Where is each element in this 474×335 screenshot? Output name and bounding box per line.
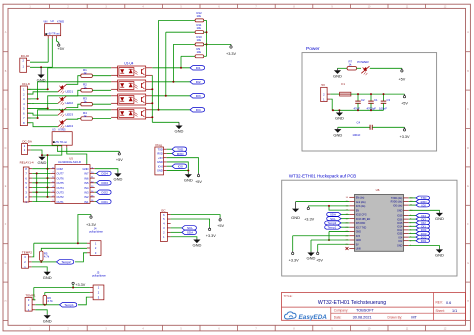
svg-text:C: C (5, 108, 7, 111)
wire (167, 165, 172, 167)
wire (292, 236, 294, 251)
wire (27, 102, 58, 104)
wire (47, 39, 49, 63)
junction (47, 196, 49, 198)
junction (180, 67, 182, 69)
svg-text:IN4: IN4 (84, 186, 89, 190)
voltage regulator module U3 (52, 128, 72, 148)
wire (409, 201, 416, 203)
connector 5V (321, 83, 331, 101)
resistor R3 1k (81, 97, 93, 106)
junction (36, 172, 38, 174)
svg-text:C4: C4 (357, 120, 361, 124)
svg-text:+5V TR out: +5V TR out (47, 33, 59, 36)
wire (51, 39, 53, 68)
svg-text:DI4: DI4 (196, 108, 201, 112)
svg-text:+5V: +5V (195, 180, 202, 184)
+3.3V port (U6 bottom) (289, 251, 299, 263)
svg-text:1k: 1k (84, 86, 88, 90)
wire (27, 92, 58, 94)
junction (151, 102, 153, 104)
wire (27, 82, 111, 99)
svg-text:GND: GND (157, 169, 163, 173)
net flag SCL (U6) (327, 217, 341, 221)
svg-text:IO39: IO39 (397, 215, 403, 218)
net flag TXD (U6) (416, 196, 430, 200)
svg-text:+3.3V: +3.3V (75, 283, 85, 287)
svg-text:U2: U2 (51, 19, 55, 23)
wire (171, 237, 197, 239)
junction (357, 109, 359, 111)
svg-text:GND: GND (307, 256, 316, 261)
svg-text:DI1-8: DI1-8 (22, 82, 30, 86)
junction (151, 88, 153, 90)
svg-text:+5V: +5V (116, 158, 123, 162)
wire (171, 231, 182, 233)
net flag Temp2 (U6) (325, 221, 341, 225)
wire (45, 293, 90, 296)
svg-text:COM: COM (57, 167, 64, 171)
junction (72, 287, 74, 289)
wire (409, 233, 416, 235)
wire (167, 152, 172, 154)
svg-text:GND: GND (333, 132, 342, 137)
ground (power caps) (335, 110, 344, 120)
wire (32, 168, 50, 170)
wire (32, 187, 50, 189)
svg-text:+3.3V: +3.3V (289, 259, 299, 263)
wire (32, 196, 50, 198)
junction (370, 109, 372, 111)
LED LED2 (58, 96, 73, 105)
svg-text:DO3: DO3 (102, 181, 109, 185)
net flag DO2 (U6) (416, 235, 430, 239)
junction (37, 98, 39, 100)
svg-text:IN3: IN3 (84, 191, 89, 195)
net flag RXD (U6) (416, 200, 430, 204)
wire (152, 95, 190, 97)
svg-text:GND: GND (192, 243, 201, 248)
svg-text:DI3: DI3 (196, 94, 201, 98)
svg-text:REV:: REV: (436, 301, 443, 305)
resistor R9 10k (195, 47, 204, 58)
svg-text:POWER: POWER (357, 60, 369, 64)
svg-text:1k: 1k (84, 71, 88, 75)
svg-text:IN6: IN6 (84, 176, 89, 180)
optocoupler U2 (111, 80, 152, 91)
connector TEMP1 (25, 294, 36, 313)
+3.3V port (I2C) (206, 227, 216, 238)
junction (36, 191, 38, 193)
svg-text:EN: EN (356, 209, 360, 212)
wire (32, 182, 50, 184)
net flag RXD (Prog) (172, 151, 187, 156)
wire (317, 244, 319, 251)
+5V port (U2 output) (57, 43, 64, 52)
wire (32, 172, 50, 174)
net flag DI1 (190, 66, 205, 71)
capacitor C3 100nF (379, 94, 391, 110)
svg-text:GND: GND (83, 167, 89, 171)
svg-text:Date:: Date: (334, 315, 342, 319)
svg-text:DO2: DO2 (102, 191, 109, 195)
net flag DI2 (190, 80, 205, 85)
svg-text:IO33 485_EN: IO33 485_EN (356, 218, 371, 221)
wire (165, 32, 167, 96)
svg-text:+3.3V: +3.3V (399, 135, 409, 139)
connector TEMP2 (22, 251, 33, 270)
svg-text:IO-0: IO-0 (158, 164, 164, 168)
ground (C4) (333, 127, 342, 137)
svg-text:OUT2: OUT2 (57, 195, 65, 199)
connector J5 pullup/down (90, 271, 107, 300)
capacitor C4 100nF (338, 120, 405, 137)
svg-text:K7805: K7805 (57, 21, 65, 24)
wire (32, 191, 50, 193)
wire (159, 19, 196, 21)
junction (187, 169, 189, 171)
svg-text:4.7k: 4.7k (47, 299, 53, 303)
wire (166, 31, 195, 33)
net flag DI2 (U6) (416, 221, 430, 225)
svg-text:Temp1: Temp1 (328, 225, 337, 229)
wire (34, 288, 36, 300)
wire (180, 56, 182, 68)
LED LED3 (58, 108, 73, 117)
svg-text:MT: MT (411, 316, 417, 320)
svg-text:+5V TR out: +5V TR out (55, 141, 67, 144)
wire (409, 236, 416, 238)
ground (U6 right top) (435, 212, 444, 221)
wire (32, 177, 50, 179)
svg-text:RXD: RXD (157, 152, 163, 156)
svg-text:IN5: IN5 (84, 181, 89, 185)
svg-text:Company:: Company: (334, 309, 349, 313)
voltage regulator module U2 (43, 19, 64, 39)
svg-text:IN7: IN7 (84, 172, 89, 176)
wire (78, 297, 90, 305)
svg-text:+5V: +5V (158, 156, 163, 160)
svg-text:D: D (467, 147, 469, 150)
svg-text:D: D (5, 147, 7, 150)
svg-text:10k: 10k (197, 14, 202, 18)
junction (165, 95, 167, 97)
wire (27, 68, 111, 90)
svg-text:WT32-ETH01 Teichsteuerung: WT32-ETH01 Teichsteuerung (318, 300, 386, 306)
+5V port (U3 output) (116, 151, 123, 162)
svg-text:IO0: IO0 (178, 165, 183, 169)
wire (92, 89, 111, 91)
svg-text:TOBSOFT: TOBSOFT (356, 309, 375, 313)
svg-text:4.7k: 4.7k (44, 255, 50, 259)
connector DC-DA (22, 140, 32, 155)
+5V port (Prog) (195, 173, 202, 184)
svg-text:3V3: 3V3 (356, 235, 361, 238)
svg-text:TITLE:: TITLE: (284, 294, 293, 298)
svg-text:DO1: DO1 (102, 200, 109, 204)
net flag DI1 (U6) (416, 224, 430, 228)
svg-text:pullup/down: pullup/down (92, 274, 106, 278)
wire (67, 90, 81, 96)
svg-text:Prog: Prog (156, 143, 163, 147)
junction (77, 242, 79, 244)
svg-text:GND: GND (435, 253, 444, 258)
svg-text:GND: GND (435, 216, 444, 221)
wire (204, 55, 207, 57)
svg-text:C2: C2 (361, 98, 365, 102)
wire (27, 96, 111, 109)
svg-text:LED3: LED3 (66, 113, 74, 117)
svg-text:0.6: 0.6 (446, 301, 451, 305)
wire (95, 191, 97, 193)
wire (152, 109, 190, 111)
svg-text:H: H (467, 300, 469, 303)
wire (167, 169, 189, 171)
wire (31, 150, 42, 155)
wire (409, 218, 416, 220)
svg-text:100nF: 100nF (352, 133, 360, 137)
svg-text:IO32 CFG: IO32 CFG (356, 214, 367, 217)
junction (40, 261, 42, 263)
svg-text:IO0: IO0 (421, 203, 426, 207)
net flag IO0 (U6) (416, 203, 430, 207)
resistor R12 10k (195, 11, 204, 22)
svg-text:5V: 5V (356, 243, 359, 246)
wire (30, 66, 52, 68)
wire (311, 239, 349, 241)
wire (296, 201, 350, 203)
svg-text:TXD: TXD (158, 147, 163, 151)
svg-text:+3.3V: +3.3V (86, 223, 96, 227)
connector RELAY1-4 (20, 160, 34, 203)
wire (41, 261, 56, 263)
wire (409, 240, 416, 242)
ground (U6 bottom) (307, 252, 316, 261)
junction (151, 116, 153, 118)
wire (92, 103, 111, 105)
wire (152, 81, 190, 83)
wire (95, 201, 97, 203)
svg-text:IO0 (dis): IO0 (dis) (393, 204, 402, 207)
net flag IO0 (Prog) (172, 164, 187, 169)
svg-text:TEMP1: TEMP1 (26, 294, 36, 298)
ground (Prog) (184, 173, 193, 182)
junction (383, 93, 385, 95)
ground (U6 right bottom) (435, 248, 444, 257)
svg-text:IO17 TXD: IO17 TXD (356, 226, 367, 229)
svg-text:1k: 1k (84, 100, 88, 104)
wire (67, 148, 87, 165)
wire (47, 155, 49, 197)
wire (167, 162, 189, 173)
svg-text:C3: C3 (387, 98, 391, 102)
svg-text:SCL: SCL (187, 226, 193, 230)
wire (357, 67, 362, 69)
wire (34, 287, 90, 289)
svg-text:5V: 5V (321, 83, 325, 87)
svg-text:GND: GND (291, 215, 300, 220)
wire (95, 169, 118, 173)
capacitor C1 4700pF (367, 94, 379, 110)
svg-text:IO36: IO36 (397, 218, 403, 221)
svg-text:IN2: IN2 (84, 195, 89, 199)
wire (181, 55, 195, 57)
WT32-ETH01 section box (282, 174, 457, 277)
svg-text:DO4: DO4 (102, 172, 109, 176)
svg-text:IO4: IO4 (398, 236, 403, 239)
wire (409, 215, 416, 217)
svg-text:U1-U4: U1-U4 (124, 61, 133, 65)
LED LED4 (58, 119, 73, 128)
wire (171, 227, 182, 229)
title block (282, 293, 466, 322)
junction (47, 177, 49, 179)
junction (37, 117, 39, 119)
wire (409, 225, 416, 227)
junction (47, 168, 49, 170)
svg-text:RXD0 (dis): RXD0 (dis) (391, 201, 403, 204)
svg-text:+5V: +5V (217, 224, 224, 228)
wire (206, 20, 208, 56)
svg-text:F1: F1 (341, 82, 345, 86)
wire (341, 218, 349, 220)
svg-text:Power: Power (306, 46, 320, 52)
WT32-ETH01 module U6 (346, 188, 414, 252)
wire (351, 93, 405, 95)
fuse F1 (340, 82, 351, 96)
wire (158, 20, 160, 109)
svg-text:IO14: IO14 (397, 226, 403, 229)
wire (27, 110, 111, 118)
svg-text:IN1: IN1 (84, 200, 89, 204)
+5V port (power LED) (398, 68, 405, 81)
wire (30, 61, 48, 63)
connector J4 pullup/down (87, 226, 104, 255)
svg-text:GND: GND (38, 160, 47, 165)
net flag Temp2 (57, 260, 74, 265)
svg-text:1k: 1k (84, 114, 88, 118)
optocoupler U4 (111, 108, 152, 119)
connector DI1-8 (20, 82, 30, 126)
net flag DI4 (190, 108, 205, 113)
wire (341, 213, 349, 215)
svg-text:GND: GND (175, 129, 184, 134)
svg-text:DI1: DI1 (196, 66, 201, 70)
svg-text:OUT4: OUT4 (57, 186, 65, 190)
wire (409, 204, 416, 206)
svg-text:TEMP2: TEMP2 (22, 251, 32, 255)
junction (357, 93, 359, 95)
wire (341, 222, 349, 224)
svg-text:+3.3V: +3.3V (226, 52, 236, 56)
svg-text:OUT1: OUT1 (57, 200, 65, 204)
LED POWER (357, 60, 369, 75)
net flag DO1 (97, 199, 112, 204)
wire (409, 222, 416, 224)
wire (204, 43, 207, 45)
Power section box (302, 46, 437, 151)
wire (45, 304, 60, 306)
ground (U6 left) (291, 202, 300, 221)
label U1-U4 (124, 61, 133, 65)
wire (44, 304, 46, 306)
junction (370, 93, 372, 95)
+3.3V port (U6 EN pull) (304, 206, 314, 222)
ground (opto emitters) (175, 122, 184, 133)
svg-text:Temp1: Temp1 (64, 303, 74, 307)
connector I2C (160, 208, 170, 241)
svg-text:OUT6: OUT6 (57, 176, 65, 180)
wire (41, 248, 87, 251)
svg-text:DC-DI: DC-DI (21, 54, 29, 58)
svg-text:+3.3V: +3.3V (304, 217, 314, 221)
svg-text:ULN2004G-S16-R: ULN2004G-S16-R (58, 160, 81, 164)
svg-text:LINK: LINK (356, 248, 362, 251)
+3.3V port (Temp2) (86, 215, 96, 227)
ground (TEMP2) (43, 271, 52, 280)
wire (330, 99, 383, 110)
ground (TEMP1) (43, 314, 52, 323)
svg-text:GND: GND (43, 275, 52, 280)
junction (41, 154, 43, 156)
svg-text:SDA: SDA (187, 231, 194, 235)
junction (206, 31, 208, 45)
wire (293, 235, 350, 237)
svg-text:K7805: K7805 (59, 129, 67, 132)
net flag DI3 (190, 94, 205, 99)
optocoupler U1 (111, 66, 152, 77)
svg-text:+5V: +5V (57, 47, 64, 51)
wire (31, 145, 62, 147)
svg-text:WT32-ETH01 Huckepack auf PCB: WT32-ETH01 Huckepack auf PCB (289, 174, 356, 179)
resistor R5 4.7k (40, 251, 50, 260)
wire (67, 118, 81, 121)
wire (329, 206, 349, 210)
ULN2004 driver U5 (50, 156, 94, 204)
net flag DO3 (U6) (416, 232, 430, 236)
wire (40, 261, 42, 262)
net flag SDA (I2C) (182, 230, 197, 235)
svg-text:G: G (5, 262, 7, 265)
resistor R11 10k (195, 23, 204, 34)
LED LED1 (58, 84, 73, 93)
wire (75, 253, 87, 262)
svg-text:GND: GND (157, 160, 163, 164)
net flag TXD (Prog) (172, 147, 187, 152)
svg-text:Gnd (dis): Gnd (dis) (356, 201, 366, 204)
svg-text:TXD0 (dis): TXD0 (dis) (391, 197, 403, 200)
svg-text:+5V: +5V (316, 259, 323, 263)
optocoupler U3 (111, 94, 152, 105)
svg-text:GND: GND (335, 116, 344, 121)
junction (47, 154, 49, 156)
svg-text:DO1: DO1 (421, 239, 427, 243)
junction (328, 205, 330, 207)
wire (72, 285, 74, 288)
wire (409, 197, 416, 199)
junction (332, 109, 340, 111)
wire (57, 39, 59, 43)
wire (152, 67, 190, 69)
wire (204, 19, 207, 21)
wire (330, 93, 339, 95)
svg-text:LED1: LED1 (66, 89, 74, 93)
wire (341, 226, 349, 228)
ground (U5) (113, 172, 122, 181)
junction (47, 187, 49, 189)
pin LINK no-connect (346, 247, 349, 250)
connector Prog (155, 143, 167, 175)
